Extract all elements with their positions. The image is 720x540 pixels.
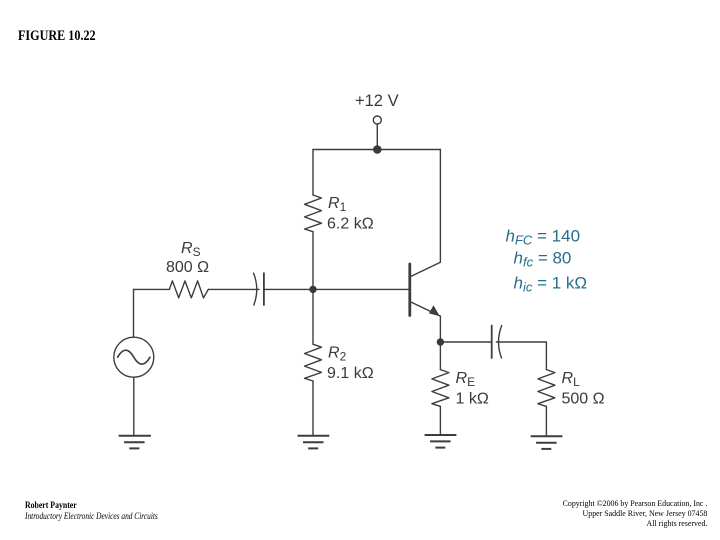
figure title	[18, 29, 96, 45]
wire emitter to RE	[439, 342, 441, 370]
wire top rail	[313, 149, 440, 151]
resistor R1	[305, 195, 322, 232]
ground RL	[531, 436, 563, 449]
footer left credit	[25, 501, 158, 522]
ground source	[119, 436, 151, 449]
transistor Q1 base bar	[408, 264, 411, 316]
junction base node	[309, 286, 316, 293]
junction emitter node	[437, 338, 444, 345]
wire supply stub	[376, 124, 378, 149]
resistor RL	[538, 370, 555, 407]
svg-text:+12 V: +12 V	[355, 92, 399, 110]
wire input row left	[134, 288, 170, 290]
svg-text:6.2 kΩ: 6.2 kΩ	[327, 216, 374, 233]
resistor RS	[169, 281, 208, 298]
svg-text:hFC = 140: hFC = 140	[506, 226, 581, 247]
capacitor C2 curved plate	[498, 326, 501, 359]
transistor Q1 collector	[411, 150, 441, 277]
svg-text:RS: RS	[181, 240, 201, 259]
svg-text:9.1 kΩ: 9.1 kΩ	[327, 365, 374, 382]
ground RE	[425, 435, 457, 448]
wire RS to input cap	[208, 288, 259, 290]
svg-text:1 kΩ: 1 kΩ	[456, 391, 489, 408]
svg-text:R2: R2	[328, 345, 347, 364]
wire R1 top	[312, 150, 314, 196]
capacitor C1 straight plate	[263, 273, 265, 305]
wire emitter node right	[440, 341, 491, 343]
wire RE bottom	[439, 406, 441, 434]
transistor Q1 emitter	[411, 302, 441, 342]
svg-text:hfc = 80: hfc = 80	[514, 248, 572, 269]
supply terminal +12V circle	[373, 116, 381, 124]
wire base node to R2	[312, 289, 314, 344]
svg-text:RL: RL	[562, 370, 581, 389]
wire input cap to base node	[264, 288, 313, 290]
wire source bottom	[133, 377, 135, 435]
wire R1 bottom to base node	[312, 232, 314, 290]
resistor RE	[432, 370, 449, 407]
source V1 sine wave	[118, 350, 150, 364]
svg-text:hic = 1 kΩ: hic = 1 kΩ	[514, 273, 588, 294]
ground R2	[298, 436, 330, 449]
footer right copyright	[563, 498, 708, 528]
wire source branch top	[133, 289, 135, 337]
transistor Q1 emitter arrow	[429, 305, 440, 316]
svg-text:R1: R1	[328, 195, 347, 214]
wire output cap to RL corner	[496, 342, 546, 370]
wire base	[313, 288, 409, 290]
capacitor C1 curved plate	[254, 273, 257, 305]
svg-text:RE: RE	[456, 370, 476, 389]
wire RL bottom	[545, 406, 547, 436]
junction supply node	[373, 145, 382, 154]
capacitor C2 straight plate	[491, 326, 493, 359]
svg-text:800 Ω: 800 Ω	[166, 259, 209, 276]
resistor R2	[305, 344, 322, 381]
svg-text:500 Ω: 500 Ω	[562, 391, 605, 408]
wire R2 bottom	[312, 381, 314, 435]
source V1 circle	[114, 337, 154, 377]
